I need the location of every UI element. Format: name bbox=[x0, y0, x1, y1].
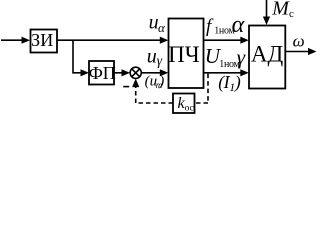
svg-text:ПЧ: ПЧ bbox=[168, 42, 200, 67]
wire PCH to AD upper (f) bbox=[204, 39, 242, 41]
arrowhead into PCH upper bbox=[160, 37, 169, 44]
arrowhead into PCH lower bbox=[160, 69, 169, 76]
arrowhead into summing junction bbox=[122, 69, 131, 76]
minus sign at summing junction bbox=[123, 86, 129, 88]
svg-text:kос: kос bbox=[178, 95, 194, 114]
svg-text:α: α bbox=[232, 12, 245, 38]
arrowhead Mc into AD bbox=[263, 17, 270, 26]
svg-text:α: α bbox=[158, 20, 166, 35]
svg-text:γ: γ bbox=[157, 53, 163, 68]
svg-text:): ) bbox=[158, 74, 164, 90]
wire input to ZI bbox=[1, 39, 23, 41]
wire ZI to PCH bbox=[57, 39, 161, 41]
block ZI bbox=[31, 30, 58, 53]
summing junction X cross bbox=[132, 69, 140, 77]
svg-text:ФП: ФП bbox=[89, 63, 116, 83]
svg-text:γ: γ bbox=[237, 45, 246, 69]
svg-text:(I1): (I1) bbox=[218, 72, 241, 94]
dashed wire up into summing junction bbox=[135, 85, 137, 103]
block PCH bbox=[169, 19, 204, 89]
svg-text:ω: ω bbox=[293, 31, 305, 50]
svg-text:ЗИ: ЗИ bbox=[31, 30, 53, 50]
summing junction circle bbox=[130, 67, 141, 78]
wire PCH to AD lower (U) bbox=[204, 72, 242, 74]
wire branch down from node to FP level bbox=[73, 40, 82, 73]
arrowhead into AD upper bbox=[240, 37, 249, 44]
dashed wire tap I1 down from U line bbox=[207, 74, 209, 103]
svg-text:АД: АД bbox=[251, 41, 284, 66]
wire AD output omega bbox=[285, 51, 309, 53]
svg-text:u: u bbox=[147, 45, 157, 67]
arrowhead into AD lower bbox=[240, 69, 249, 76]
arrowhead feedback into summing junction bbox=[132, 79, 139, 88]
block k feedback coefficient bbox=[173, 94, 195, 114]
block FP bbox=[89, 61, 114, 85]
arrowhead omega output bbox=[308, 48, 317, 55]
arrowhead into FP bbox=[81, 69, 90, 76]
svg-text:f: f bbox=[206, 16, 214, 37]
block AD bbox=[249, 26, 285, 89]
wire FP to summing junction bbox=[114, 72, 123, 74]
arrowhead into ZI bbox=[22, 37, 31, 44]
dashed wire k block to below summing junction bbox=[136, 102, 173, 104]
wire Mc into AD top bbox=[266, 0, 268, 18]
svg-text:Mс: Mс bbox=[271, 0, 294, 20]
wire summing junction to PCH bbox=[141, 72, 160, 74]
dashed wire right segment to k block bbox=[195, 102, 209, 104]
